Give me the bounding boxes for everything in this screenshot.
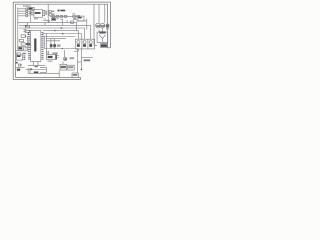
triac T2 circle: [83, 41, 86, 44]
crystal dark dot: [20, 64, 21, 65]
box with marks: [21, 43, 25, 45]
text CN1: [29, 8, 33, 10]
bracket short lines: [40, 67, 47, 72]
left wire vertical: [26, 23, 28, 27]
triac T1 circle: [77, 41, 80, 44]
text pin numbers: [30, 12, 32, 15]
text below C3: [52, 52, 57, 54]
diode D7 body: [50, 44, 53, 47]
text GND blob: [16, 62, 18, 64]
text bottom box3: [73, 74, 78, 76]
wire under U5: [15, 66, 24, 68]
wire mid top verticals: [63, 20, 77, 31]
dark tick K1: [25, 25, 27, 27]
left wire vertical 2: [27, 36, 29, 50]
capacitor small box: [25, 30, 30, 32]
element right of buzzers: [107, 24, 109, 30]
lower-left marks: [15, 53, 26, 55]
MCU U2 box: [31, 30, 41, 61]
text U2 vertical label: [34, 39, 36, 52]
diode D3: [60, 15, 63, 17]
text top tick marks: [24, 5, 27, 7]
capacitor C1: [46, 11, 47, 16]
resistor R1: [49, 10, 51, 12]
U1 left pin pads: [31, 10, 32, 11]
small box component: [21, 35, 25, 38]
wire triac to mic box: [95, 45, 98, 47]
wire 230V: [28, 72, 59, 74]
triac box divider 1: [81, 39, 83, 49]
U2 right pin pads: [42, 32, 43, 33]
relay K2 box: [19, 39, 23, 41]
text on regulator: [78, 17, 81, 19]
regulator box U3: [78, 16, 84, 21]
wire stubs right of pads: [28, 9, 30, 16]
left components column box K1: [25, 26, 29, 28]
bottom-left IC U5 box: [17, 55, 23, 60]
buzzer LS1 circle left: [96, 23, 101, 28]
sheet border outer: [13, 2, 110, 79]
U1 left pins: [32, 11, 34, 15]
wire vertical x59: [58, 70, 60, 77]
buzzer LS2 circle right: [100, 23, 105, 28]
wires above U5: [15, 53, 20, 55]
diode D2: [56, 15, 59, 17]
text dark box bottom-left: [17, 69, 20, 71]
marks left of label box: [44, 19, 51, 20]
wire vertical from top border: [47, 4, 49, 22]
bus wire 5: [43, 36, 76, 38]
capacitor C3: [47, 51, 49, 55]
diode D5: [73, 15, 76, 17]
diode D4: [64, 15, 67, 17]
U2 left pin pads: [28, 32, 29, 33]
bottom mid small box U4: [47, 54, 56, 59]
diode D8 outline: [53, 47, 56, 49]
diode row wire: [50, 15, 80, 17]
wire CN1 down: [29, 10, 31, 23]
node dot left column b: [25, 36, 26, 37]
buzzer internals dark blob 2: [101, 25, 105, 27]
wire net B: [44, 48, 78, 50]
text R1 R2 values: [52, 11, 55, 12]
triac internals T3: [89, 44, 92, 47]
connector J1 pads: [26, 8, 28, 10]
U2 left pins: [29, 33, 31, 60]
wire horizontal left: [15, 50, 28, 52]
wire under regulator: [76, 19, 87, 30]
triac box divider 2: [87, 39, 89, 49]
junction dot net B: [62, 48, 63, 49]
wire right vertical x77: [77, 49, 79, 73]
bus wire 1: [19, 25, 90, 39]
label box CN1: [29, 7, 35, 10]
U1 right pins: [42, 10, 45, 15]
left column dark ticks: [24, 45, 26, 48]
wires right of U4: [57, 56, 59, 58]
text left of regulator: [73, 18, 76, 20]
text U5 label: [17, 55, 21, 57]
node dot left column a: [27, 33, 28, 34]
connector J1 vertical bus: [17, 8, 19, 51]
U5 right pins: [23, 56, 25, 59]
U2 right pins: [41, 33, 43, 60]
diode D6: [77, 15, 80, 17]
marks right of relay: [25, 48, 27, 50]
text below line1 MCU: [35, 66, 38, 67]
wires into mic box: [99, 28, 104, 44]
tick between verticals: [78, 61, 82, 63]
left column marks: [24, 29, 27, 31]
bus wire 4: [43, 34, 82, 40]
dash under U4: [48, 61, 53, 62]
mic box zigzag top: [99, 31, 105, 33]
wire 48V vertical: [80, 49, 82, 69]
triac internals T1: [77, 44, 80, 47]
wire below triac box: [74, 49, 78, 51]
capacitor C2: [71, 21, 74, 23]
text U4 label: [48, 56, 53, 58]
junction dot left: [62, 33, 63, 34]
line below MCU: [28, 64, 45, 66]
electrolytic cap C4: [56, 54, 57, 59]
bottom label box 3: [72, 73, 78, 77]
junction speck: [54, 30, 56, 31]
line below MCU 2: [26, 69, 47, 71]
bottom label box 2: [68, 65, 75, 70]
speck above bus: [48, 21, 50, 24]
text right of vertical pair: [31, 68, 33, 70]
microphone symbol Y: [99, 35, 105, 43]
U5 pin pads: [24, 55, 25, 56]
text 48VDC: [84, 59, 91, 61]
text bottom box1: [61, 66, 66, 68]
vertical drops right of MCU: [45, 22, 47, 54]
stub above box 1: [62, 62, 64, 65]
text near diodes D7 D8: [57, 44, 61, 46]
bottom vertical pair: [28, 68, 30, 73]
text U1 label: [35, 12, 41, 14]
U1 right pin pads: [43, 9, 46, 12]
text in label box mid: [52, 19, 55, 21]
microphone box: [97, 32, 108, 42]
resistor R2: [49, 13, 51, 15]
label box mid: [52, 18, 56, 21]
label box MIC: [100, 44, 107, 48]
diode D1: [52, 15, 55, 17]
triac T3 circle: [89, 41, 92, 44]
triac internals T2: [83, 44, 86, 47]
relay box RL1: [18, 47, 24, 50]
right panel wires from top: [94, 4, 105, 45]
text 230V: [34, 72, 39, 74]
bus wire 0: [18, 21, 77, 23]
diode D7 outline: [50, 47, 53, 49]
text MIC label: [101, 44, 107, 47]
dash above D5: [72, 13, 75, 14]
text mid left labels: [26, 43, 30, 45]
sheet border inner: [15, 4, 110, 77]
bus wire 2: [19, 28, 84, 39]
wire vertical drops to diodes: [51, 39, 55, 44]
bus wire 3: [28, 31, 78, 40]
diode D8 body: [53, 44, 56, 47]
wire net A: [46, 39, 66, 41]
op-amp U1 box: [34, 10, 43, 18]
text 1N4148: [60, 10, 65, 12]
triac box outline: [75, 39, 94, 49]
crystal X1: [18, 64, 21, 66]
stubs below MCU: [34, 62, 39, 66]
transistor Q1: [64, 50, 66, 57]
buzzer internals dark blob 3: [106, 25, 110, 28]
dash under diodes 1: [57, 18, 59, 19]
dash under U1: [34, 18, 38, 19]
dash under diodes 2: [61, 19, 63, 20]
text 61-63 labels: [60, 27, 62, 29]
transistor Q1 dark: [64, 58, 66, 60]
wire 48V horizontal: [81, 57, 92, 59]
connector J1 pin wires: [18, 9, 26, 16]
buzzer internals dark blob 1: [96, 25, 100, 27]
bottom label box 1: [60, 64, 67, 70]
text relay label: [19, 47, 23, 49]
node dot 48V end: [81, 69, 82, 70]
text 4x: [58, 10, 60, 12]
text bottom box2: [68, 66, 73, 68]
